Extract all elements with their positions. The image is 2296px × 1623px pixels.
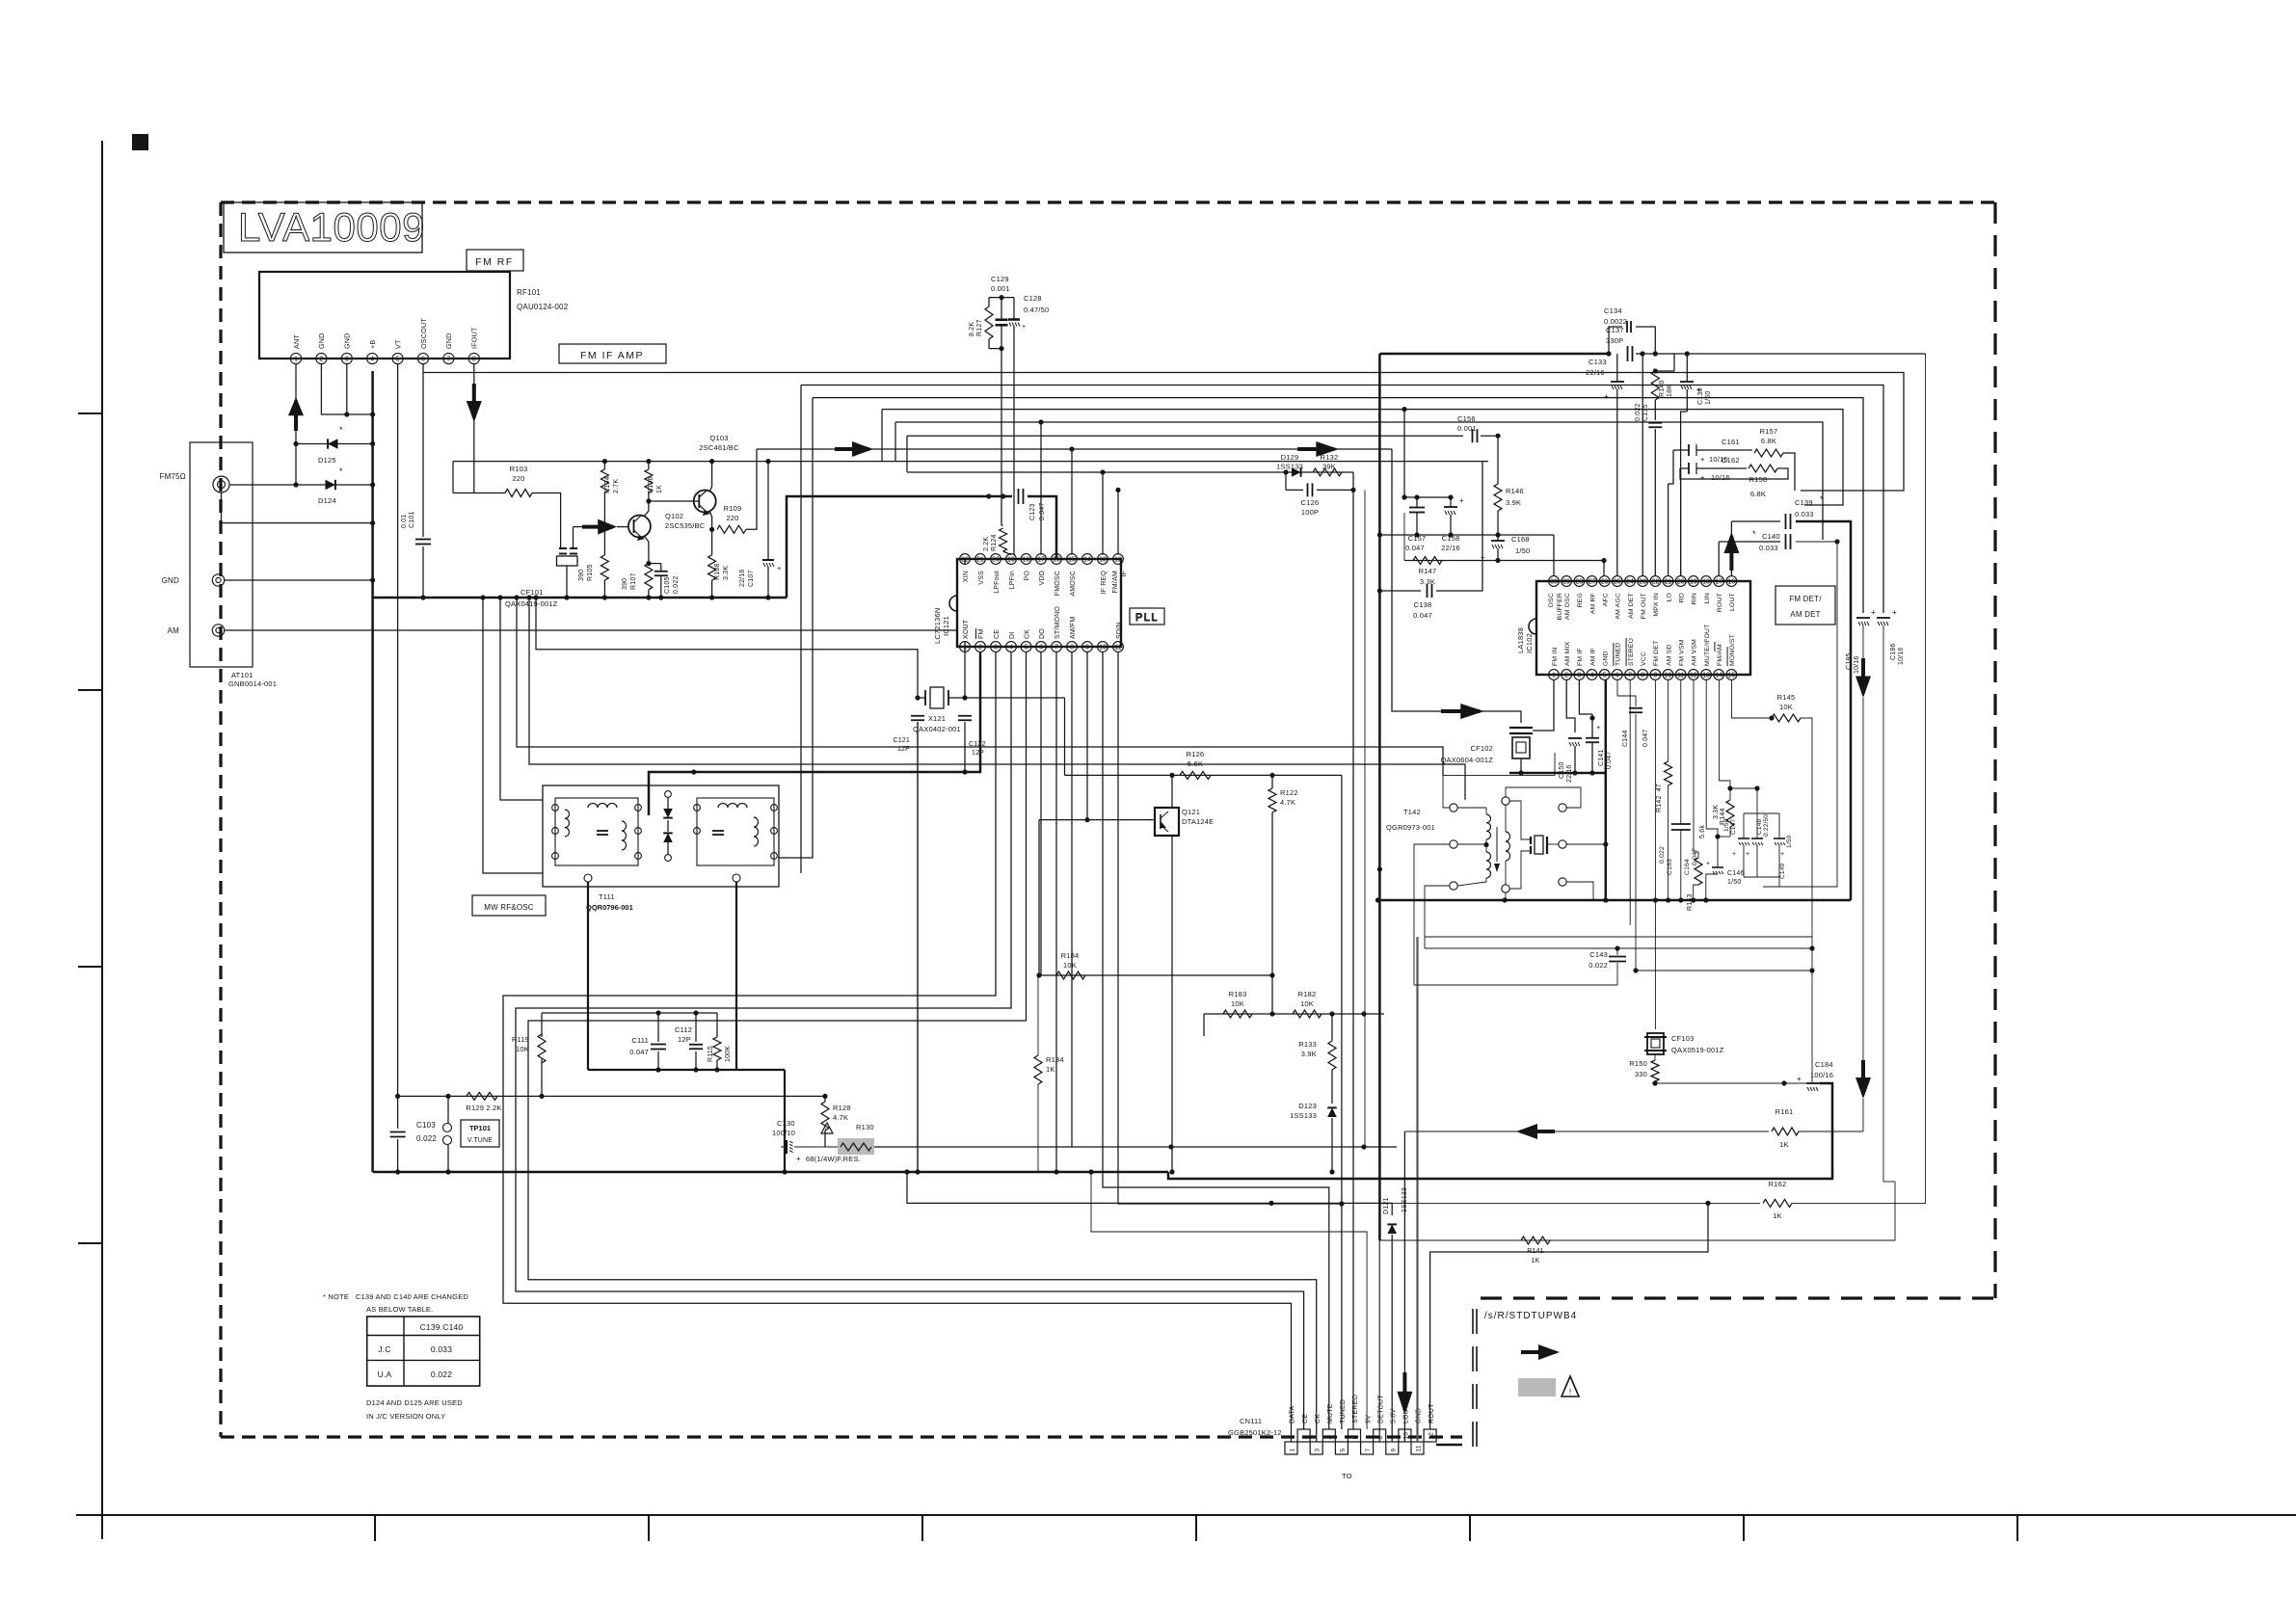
svg-text:390: 390 bbox=[578, 570, 585, 581]
capacitor C140 bbox=[1752, 529, 1791, 552]
svg-text:3: 3 bbox=[1315, 1449, 1322, 1452]
module RF101 outline bbox=[259, 272, 510, 359]
svg-text:6.8K: 6.8K bbox=[1750, 490, 1766, 498]
wire R106 column bbox=[648, 462, 650, 501]
junction bbox=[782, 1169, 787, 1174]
svg-text:4: 4 bbox=[1590, 673, 1594, 679]
svg-text:3.3K: 3.3K bbox=[1713, 805, 1720, 819]
svg-text:6: 6 bbox=[1352, 1436, 1359, 1440]
svg-text:R108: R108 bbox=[714, 563, 721, 580]
svg-text:GGB2501K2-12: GGB2501K2-12 bbox=[1228, 1428, 1282, 1437]
electrolytic C150 bbox=[1559, 738, 1582, 783]
wire C126 left bbox=[1286, 472, 1303, 490]
junction bbox=[1169, 773, 1174, 1175]
svg-text:R105: R105 bbox=[587, 564, 594, 581]
board dashed border left bbox=[219, 202, 222, 1437]
svg-text:2: 2 bbox=[978, 645, 982, 652]
svg-text:FM75Ω: FM75Ω bbox=[160, 472, 186, 481]
wire thick AFC line bbox=[1379, 353, 1609, 356]
svg-text:TP101: TP101 bbox=[469, 1124, 491, 1132]
wire thick to C123 bbox=[787, 496, 1012, 598]
svg-text:J.C: J.C bbox=[378, 1344, 390, 1354]
resistor R146 bbox=[1494, 484, 1524, 535]
svg-text:C184: C184 bbox=[1815, 1060, 1833, 1069]
wire pin10 drop bbox=[1103, 652, 1329, 1429]
wire X121 left bbox=[918, 697, 925, 699]
diode D123 bbox=[1290, 1102, 1337, 1120]
svg-text:2: 2 bbox=[319, 357, 323, 363]
svg-text:LPFin: LPFin bbox=[1009, 571, 1016, 589]
svg-text:AM VSM: AM VSM bbox=[1692, 639, 1698, 666]
wire R134 stubs bbox=[1037, 975, 1039, 1172]
svg-text:19: 19 bbox=[1007, 557, 1015, 564]
wire ST/MONO drop bbox=[1055, 652, 1057, 1172]
label TO bbox=[1342, 1472, 1352, 1480]
wire R128 stubs bbox=[824, 1096, 826, 1147]
arrow into Q102 bbox=[582, 519, 617, 535]
wire ANT pin1 down bbox=[295, 364, 297, 485]
diode D124 bbox=[318, 466, 343, 505]
wire C156 line bbox=[907, 436, 1463, 472]
wire Q103 base line bbox=[649, 500, 699, 502]
wire R115 stubs bbox=[716, 1013, 718, 1070]
label AM bbox=[168, 626, 180, 635]
svg-text:AFC: AFC bbox=[1602, 593, 1609, 606]
svg-text:5: 5 bbox=[396, 357, 400, 363]
svg-text:AM SD: AM SD bbox=[1666, 644, 1672, 666]
electrolytic C168 bbox=[1481, 535, 1530, 562]
wire thick y802 bbox=[1509, 772, 1606, 775]
arrow left R161 bbox=[1516, 1124, 1555, 1139]
svg-text:7: 7 bbox=[1628, 673, 1632, 679]
wire feeder y793 bbox=[529, 598, 1465, 800]
junction bbox=[1339, 1201, 1344, 1206]
note text line2 bbox=[366, 1305, 433, 1314]
svg-text:4.7K: 4.7K bbox=[833, 1113, 848, 1122]
svg-text:IC102: IC102 bbox=[1525, 633, 1534, 653]
svg-text:11: 11 bbox=[1114, 645, 1121, 652]
wire CF103 drop bbox=[1653, 679, 1658, 1029]
svg-text:C105: C105 bbox=[664, 576, 671, 594]
svg-text:7: 7 bbox=[446, 357, 450, 363]
arrow into CF102 bbox=[1441, 704, 1484, 719]
wire C140 left bbox=[1719, 542, 1780, 576]
svg-text:R161: R161 bbox=[1775, 1107, 1794, 1116]
IC121 bottom pin circles bbox=[960, 642, 1124, 652]
wire C168 stubs bbox=[1497, 535, 1499, 561]
bottom border tick marks bbox=[375, 1515, 2017, 1541]
svg-text:FMOSC: FMOSC bbox=[1055, 571, 1061, 596]
wire thick T111 to IC121 pin2 bbox=[649, 652, 980, 815]
label GND bbox=[162, 576, 179, 585]
svg-text:0.022: 0.022 bbox=[1659, 846, 1666, 864]
IC102 bottom pin circles bbox=[1549, 670, 1737, 680]
svg-text:C136: C136 bbox=[1697, 387, 1704, 405]
svg-text:R130: R130 bbox=[856, 1123, 874, 1131]
svg-text:1/50: 1/50 bbox=[1515, 546, 1530, 555]
svg-text:1SS133: 1SS133 bbox=[1276, 463, 1303, 471]
svg-text:C144: C144 bbox=[1622, 730, 1629, 747]
board dashed border bottom bbox=[221, 1435, 1462, 1438]
wire R158 loop bbox=[1680, 468, 1788, 479]
svg-text:MW RF&OSC: MW RF&OSC bbox=[484, 903, 534, 912]
wire R183 R182 line bbox=[1204, 1013, 1384, 1015]
wire D124 segment bbox=[296, 484, 373, 486]
junction bbox=[344, 412, 375, 416]
svg-text:11: 11 bbox=[1677, 673, 1684, 679]
svg-text:OSC: OSC bbox=[1548, 593, 1555, 607]
wire y412 into T111 bbox=[779, 398, 813, 858]
wire y516 line bbox=[1404, 410, 1417, 497]
capacitor C136 electrolytic bbox=[1680, 382, 1712, 405]
label sR STDTUPWB4 bbox=[1484, 1311, 1577, 1321]
svg-text:C139.C140: C139.C140 bbox=[420, 1322, 464, 1332]
svg-text:X121: X121 bbox=[928, 714, 946, 723]
svg-text:10: 10 bbox=[1665, 673, 1672, 679]
wire R140 top link bbox=[1655, 354, 1674, 371]
arrow IFOUT down bbox=[467, 384, 482, 422]
wire C139 right thick bbox=[1796, 521, 1851, 900]
svg-text:VDD: VDD bbox=[1039, 571, 1046, 585]
svg-text:13: 13 bbox=[1099, 557, 1107, 564]
svg-text:AM OSC: AM OSC bbox=[1564, 593, 1571, 620]
capacitor C184 electrolytic bbox=[1797, 1060, 1833, 1091]
svg-text:DO: DO bbox=[1039, 628, 1046, 639]
svg-text:FM OUT: FM OUT bbox=[1641, 593, 1647, 619]
svg-text:0.047: 0.047 bbox=[629, 1048, 649, 1056]
svg-text:C168: C168 bbox=[1511, 535, 1530, 544]
svg-text:QAX0419-001Z: QAX0419-001Z bbox=[505, 599, 558, 608]
capacitor C128 electrolytic bbox=[1008, 294, 1049, 331]
wire T142 right bottom bbox=[1566, 882, 1593, 900]
page corner mark bbox=[132, 134, 148, 150]
svg-text:GND: GND bbox=[343, 333, 352, 349]
svg-text:R146: R146 bbox=[1506, 487, 1524, 495]
svg-text:*: * bbox=[339, 466, 343, 476]
resistor R183 bbox=[1223, 990, 1252, 1018]
svg-text:C186: C186 bbox=[1890, 643, 1897, 660]
resistor R162 bbox=[1763, 1180, 1792, 1220]
junction bbox=[1685, 351, 1690, 356]
wire Q103 collector bbox=[709, 462, 712, 492]
junction bbox=[1269, 972, 1274, 977]
label T111 bbox=[586, 892, 633, 912]
svg-text:10K: 10K bbox=[1300, 999, 1314, 1008]
IC102 top pin circles bbox=[1549, 576, 1737, 587]
svg-text:20: 20 bbox=[1677, 579, 1685, 586]
wire pin23 riser bbox=[1642, 354, 1643, 576]
svg-text:ST/MONO: ST/MONO bbox=[1055, 606, 1061, 639]
capacitor C121 bbox=[893, 716, 924, 753]
junction bbox=[1495, 434, 1500, 439]
transistor Q103 bbox=[694, 434, 739, 516]
capacitor C130 electrolytic bbox=[772, 1119, 838, 1163]
svg-text:R142 47: R142 47 bbox=[1656, 784, 1663, 812]
wire C136 stubs bbox=[1681, 354, 1688, 576]
wire R122 line bbox=[1271, 775, 1273, 1014]
svg-text:ROUT: ROUT bbox=[1428, 1403, 1435, 1423]
svg-text:390: 390 bbox=[622, 578, 628, 590]
svg-text:100K: 100K bbox=[725, 1046, 732, 1062]
junction bbox=[1572, 770, 1594, 775]
wire C161 left drop bbox=[1669, 450, 1673, 576]
label box FM IF AMP bbox=[559, 344, 666, 363]
capacitor C143 bbox=[1589, 950, 1626, 970]
svg-text:GND: GND bbox=[162, 576, 179, 585]
svg-text:*: * bbox=[339, 425, 343, 435]
svg-text:0.022: 0.022 bbox=[1589, 961, 1608, 970]
sr box double dashed left bbox=[1473, 1309, 1477, 1448]
svg-text:16: 16 bbox=[1728, 579, 1736, 586]
svg-text:FM IF AMP: FM IF AMP bbox=[580, 350, 644, 361]
wire R157 loop bbox=[1783, 453, 1795, 491]
svg-text:Q103: Q103 bbox=[709, 434, 728, 442]
svg-text:R106: R106 bbox=[648, 476, 654, 493]
wire y399 into T111 bbox=[800, 386, 802, 874]
wire C141 stubs bbox=[1579, 679, 1592, 773]
svg-text:RF101: RF101 bbox=[517, 288, 541, 297]
svg-text:CF102: CF102 bbox=[1470, 744, 1493, 753]
resistor R105 bbox=[578, 555, 608, 581]
wire y466 stub left bbox=[0, 0, 1, 1]
svg-text:TUNED: TUNED bbox=[1340, 1399, 1347, 1423]
board dashed border top bbox=[221, 200, 1995, 203]
wire pin6 TUNED drop bbox=[1629, 679, 1631, 925]
svg-text:+: + bbox=[1871, 608, 1876, 617]
svg-text:C185: C185 bbox=[1846, 652, 1853, 670]
svg-text:DETOUT: DETOUT bbox=[1377, 1395, 1384, 1423]
junction bbox=[1653, 368, 1658, 373]
crystal X121 bbox=[913, 687, 961, 733]
svg-text:VT: VT bbox=[393, 339, 402, 349]
svg-text:9: 9 bbox=[1390, 1449, 1397, 1452]
wire T142 secondary links bbox=[1502, 797, 1509, 892]
svg-text:+: + bbox=[1892, 608, 1897, 617]
svg-text:D124 AND D125 ARE USED: D124 AND D125 ARE USED bbox=[366, 1398, 463, 1407]
wire ROUT riser bbox=[1430, 1203, 1708, 1429]
svg-text:5: 5 bbox=[1340, 1449, 1347, 1452]
wire pin17 riser bbox=[1038, 419, 1043, 554]
svg-text:BUFFER: BUFFER bbox=[1557, 593, 1563, 620]
svg-text:39K: 39K bbox=[1322, 463, 1336, 471]
resistor R108 bbox=[708, 555, 730, 580]
wire C143 line bbox=[1414, 945, 1815, 985]
svg-text:ANT: ANT bbox=[292, 334, 301, 349]
CN111 pin name labels bbox=[1290, 1395, 1435, 1423]
T142 core bbox=[1494, 827, 1500, 872]
wire T111 term2 down thick bbox=[735, 882, 737, 1070]
junction bbox=[533, 595, 538, 599]
arrow ANT up bbox=[288, 397, 304, 431]
svg-text:8: 8 bbox=[1377, 1436, 1384, 1440]
wire bias rail y478 bbox=[453, 461, 1488, 463]
junction bbox=[1652, 1080, 1786, 1085]
svg-text:1/50: 1/50 bbox=[1705, 391, 1712, 405]
junction bbox=[655, 1010, 698, 1015]
svg-text:MUTE/IFOUT: MUTE/IFOUT bbox=[1704, 624, 1711, 666]
resistor R132 bbox=[1313, 453, 1342, 476]
wire y555 to pin30 bbox=[1553, 535, 1555, 576]
svg-text:10K: 10K bbox=[1779, 703, 1793, 711]
svg-text:!: ! bbox=[1569, 1388, 1571, 1397]
ceramic filter CF101 bbox=[505, 548, 577, 608]
wire y1001 line bbox=[0, 0, 1, 1]
wire R162 line bbox=[1392, 1202, 1760, 1204]
svg-text:C139: C139 bbox=[1795, 498, 1813, 507]
svg-text:R183: R183 bbox=[1229, 990, 1247, 998]
svg-text:18K: 18K bbox=[1667, 385, 1673, 397]
svg-text:CN111: CN111 bbox=[1240, 1417, 1262, 1425]
wire C140 right bbox=[1763, 542, 1837, 887]
wire R161 line bbox=[1404, 1131, 1769, 1132]
svg-text:OSCOUT: OSCOUT bbox=[419, 318, 428, 349]
note text line3 bbox=[366, 1398, 463, 1407]
svg-text:C140: C140 bbox=[1762, 532, 1780, 541]
junction bbox=[1084, 817, 1089, 822]
antenna block AT101 outline bbox=[190, 442, 253, 667]
svg-text:0.001: 0.001 bbox=[991, 284, 1010, 293]
capacitor C163 C164 bbox=[1659, 824, 1698, 875]
wire bus y412 bbox=[813, 398, 1863, 613]
svg-text:4.7K: 4.7K bbox=[1280, 798, 1295, 807]
capacitor C101 bbox=[401, 511, 431, 544]
wire y581 to pin26 bbox=[1603, 561, 1605, 577]
wire R183 left stub bbox=[1203, 1014, 1205, 1036]
capacitor C134 loop bbox=[1609, 321, 1655, 354]
svg-text:13: 13 bbox=[1702, 673, 1710, 679]
wire C184 left bbox=[1655, 1082, 1806, 1084]
svg-text:220: 220 bbox=[726, 514, 738, 522]
wire thick osc down bbox=[784, 1070, 786, 1172]
junction bbox=[1705, 1201, 1710, 1206]
capacitor C156 bbox=[1457, 414, 1478, 442]
electrolytic C148 bbox=[1746, 814, 1770, 858]
label T142 bbox=[1386, 808, 1435, 832]
connector CN111 pin boxes bbox=[1285, 1429, 1436, 1454]
electrolytic C149 bbox=[1774, 835, 1793, 879]
wire R119 stubs bbox=[541, 1013, 543, 1096]
wire x1078 bbox=[1038, 820, 1040, 975]
diode D129 bbox=[1276, 453, 1303, 477]
svg-text:10K: 10K bbox=[1063, 961, 1077, 970]
resistor R134 bbox=[1034, 1055, 1064, 1084]
svg-text:1K: 1K bbox=[1046, 1065, 1055, 1074]
svg-text:1/50: 1/50 bbox=[1786, 835, 1793, 848]
junction bbox=[962, 769, 967, 774]
svg-text:FM DET/: FM DET/ bbox=[1789, 595, 1822, 603]
wire y1248 line bbox=[907, 1172, 1392, 1215]
wire rail stub left bbox=[453, 462, 474, 493]
wire R184 line bbox=[1039, 974, 1272, 976]
svg-text:FM DET: FM DET bbox=[1653, 641, 1660, 667]
svg-text:3: 3 bbox=[994, 645, 998, 652]
capacitor C157 bbox=[1405, 508, 1426, 553]
resistor R143 bbox=[1687, 825, 1706, 911]
svg-text:5: 5 bbox=[1025, 645, 1028, 652]
wire C105 links bbox=[649, 564, 664, 600]
svg-text:D125: D125 bbox=[318, 456, 336, 465]
svg-text:R107: R107 bbox=[630, 572, 637, 590]
svg-text:R133: R133 bbox=[1298, 1040, 1317, 1049]
wire pin13 riser bbox=[1100, 469, 1105, 554]
wire C161 line bbox=[1673, 449, 1752, 451]
wire T142 right mid to GND bbox=[1566, 841, 1608, 846]
wire C126 right bbox=[1317, 489, 1353, 491]
wire R140 down bbox=[1654, 400, 1656, 420]
junction bbox=[1001, 493, 1005, 498]
wire R147 line bbox=[1404, 513, 1604, 561]
resistor R129 bbox=[466, 1092, 501, 1112]
svg-text:0.0022: 0.0022 bbox=[1604, 317, 1627, 326]
wire GND jack to +B bus bbox=[225, 579, 373, 581]
wire y1226 line bbox=[1883, 1181, 1895, 1183]
junction bbox=[1168, 1144, 1366, 1149]
svg-text:IFOUT: IFOUT bbox=[470, 327, 479, 349]
resistor R115 bbox=[707, 1037, 732, 1062]
svg-text:10/16: 10/16 bbox=[1711, 473, 1730, 482]
wire pin15 riser bbox=[1069, 446, 1074, 554]
svg-text:100/10: 100/10 bbox=[772, 1129, 795, 1137]
wire C138 line bbox=[1377, 588, 1421, 871]
svg-text:FM: FM bbox=[978, 628, 985, 639]
label box PLL bbox=[1130, 608, 1164, 625]
wire T111 term1 down thick bbox=[587, 882, 589, 1070]
wire pin2 drop bbox=[1566, 679, 1575, 732]
svg-text:AS BELOW TABLE.: AS BELOW TABLE. bbox=[366, 1305, 433, 1314]
svg-text:C143: C143 bbox=[1589, 950, 1608, 959]
junction bbox=[497, 595, 502, 599]
wire RF101 gnd pins join bbox=[321, 364, 372, 414]
svg-text:4: 4 bbox=[1009, 645, 1013, 652]
svg-text:1K: 1K bbox=[1532, 1258, 1540, 1264]
wire T111 varactor bbox=[665, 791, 672, 862]
svg-text:1/50: 1/50 bbox=[1727, 879, 1741, 886]
svg-text:8: 8 bbox=[472, 357, 476, 363]
svg-text:0.022: 0.022 bbox=[416, 1134, 437, 1143]
resistor R140 bbox=[1651, 371, 1673, 400]
transistor Q102 bbox=[628, 512, 706, 541]
svg-text:R184: R184 bbox=[1061, 951, 1080, 960]
wire R143 stubs bbox=[1694, 679, 1698, 900]
svg-text:5.6K: 5.6K bbox=[1188, 759, 1203, 768]
label AT101 bbox=[228, 671, 277, 688]
svg-text:0.033: 0.033 bbox=[431, 1344, 452, 1354]
junction bbox=[904, 1169, 1273, 1206]
junction bbox=[1283, 469, 1288, 474]
ceramic filter CF103 bbox=[1644, 1033, 1724, 1054]
svg-text:PLL: PLL bbox=[1135, 612, 1159, 624]
wire Q102 emitter bbox=[644, 536, 649, 564]
wire C146 stubs bbox=[1706, 679, 1718, 900]
junction bbox=[1350, 488, 1355, 492]
svg-text:R157: R157 bbox=[1760, 427, 1778, 436]
wire GND riser thick bbox=[1416, 937, 1418, 1442]
svg-text:R132: R132 bbox=[1321, 453, 1339, 462]
svg-text:GNB0014-001: GNB0014-001 bbox=[228, 679, 277, 688]
svg-text:Q121: Q121 bbox=[1182, 808, 1200, 816]
svg-text:Q102: Q102 bbox=[665, 512, 683, 520]
svg-text:LOUT: LOUT bbox=[1729, 593, 1736, 611]
junction bbox=[1269, 773, 1274, 1017]
wire C184 right thick bbox=[1168, 1083, 1832, 1179]
wire D121 down bbox=[1391, 1235, 1393, 1442]
wire C126 line bbox=[1353, 472, 1365, 1429]
RF101 pin circles 1-8 bbox=[290, 353, 479, 363]
svg-text:18: 18 bbox=[1702, 579, 1710, 586]
junction bbox=[691, 769, 696, 774]
note table frame bbox=[367, 1317, 480, 1386]
T111 coil L3 bbox=[622, 821, 627, 850]
